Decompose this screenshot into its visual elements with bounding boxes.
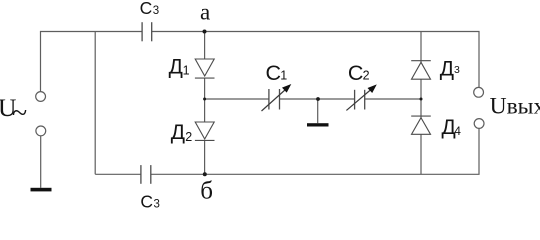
- svg-text:2: 2: [363, 69, 370, 83]
- label C3 top: [140, 0, 160, 18]
- label C1: [266, 61, 288, 85]
- svg-text:Uвых: Uвых: [490, 93, 540, 119]
- wire D3 to mid junction: [420, 79, 422, 118]
- capacitor C3 bottom plates: [141, 165, 151, 184]
- svg-text:C: C: [348, 61, 364, 85]
- junction dot mid-right: [420, 98, 423, 101]
- svg-text:Д: Д: [171, 121, 185, 144]
- wire node a to D1: [204, 32, 206, 60]
- label D3: [440, 57, 460, 80]
- wire bottom rail right segment: [151, 129, 479, 175]
- capacitor C1 plates: [269, 89, 280, 110]
- svg-text:1: 1: [280, 69, 287, 83]
- diode D4: [411, 116, 431, 134]
- wire D3 branch top: [420, 32, 422, 63]
- wire D1 to mid: [204, 78, 206, 122]
- label D4: [442, 116, 462, 139]
- svg-text:б: б: [200, 177, 213, 204]
- svg-text:~: ~: [12, 98, 27, 129]
- wire D2 to node b: [204, 141, 206, 175]
- wire mid rail C2 to D3 junction: [365, 98, 421, 100]
- wire top rail right segment: [152, 32, 479, 88]
- terminal input bottom: [36, 126, 46, 136]
- label C3 bottom: [140, 191, 160, 211]
- capacitor C2 arrow: [346, 84, 376, 110]
- svg-text:C: C: [140, 191, 153, 208]
- diode D3: [411, 61, 431, 79]
- svg-text:a: a: [200, 0, 210, 24]
- junction dot mid-left: [203, 98, 206, 101]
- node a junction dot: [203, 30, 207, 34]
- ground input bar: [31, 188, 52, 192]
- capacitor C3 top plates: [142, 22, 152, 41]
- wire D4 to bottom rail: [420, 134, 422, 174]
- terminal output top: [474, 87, 484, 97]
- label D2: [171, 121, 193, 144]
- wire mid rail D1 junction to C1: [205, 98, 269, 100]
- junction dot ground: [316, 97, 320, 101]
- node b junction dot: [203, 172, 207, 176]
- terminal input top: [36, 92, 46, 102]
- svg-text:3: 3: [454, 64, 460, 76]
- svg-text:Д: Д: [169, 55, 183, 78]
- ground middle bar: [307, 123, 329, 126]
- capacitor C2 plates: [355, 90, 365, 110]
- terminal output bottom: [474, 119, 484, 129]
- svg-text:Д: Д: [440, 57, 454, 80]
- svg-text:3: 3: [154, 199, 160, 208]
- label D1: [169, 55, 190, 78]
- capacitor C1 arrow: [262, 84, 292, 111]
- diode D1: [195, 59, 215, 78]
- wire mid rail C1 to C2: [280, 98, 355, 100]
- svg-text:1: 1: [183, 63, 190, 77]
- svg-text:C: C: [266, 61, 282, 85]
- svg-text:C: C: [140, 0, 153, 18]
- wire bottom rail left segment: [95, 173, 141, 175]
- wire ground stem: [317, 99, 319, 123]
- svg-text:4: 4: [454, 124, 461, 138]
- wire left shunt vertical: [94, 32, 96, 175]
- diode D2: [195, 122, 215, 140]
- wire input lower stem: [40, 136, 42, 188]
- label C2: [348, 61, 370, 85]
- svg-text:2: 2: [185, 130, 192, 144]
- svg-text:3: 3: [153, 5, 159, 17]
- wire top rail left segment: [41, 32, 143, 92]
